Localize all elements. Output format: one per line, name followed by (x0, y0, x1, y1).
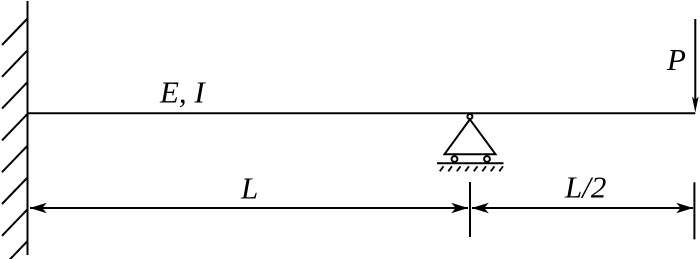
roller left (452, 156, 458, 162)
beam (28, 112, 696, 114)
dimension line L/2 shaft (472, 207, 693, 209)
roller right (484, 156, 490, 162)
ground hatching (440, 166, 503, 171)
svg-text:E, I: E, I (159, 75, 206, 110)
support triangle (445, 119, 496, 154)
middle tick (469, 182, 471, 237)
right end tick (693, 182, 695, 239)
wall (fixed support) vertical line (27, 1, 29, 255)
dimension line L shaft (30, 207, 468, 209)
roller-pin support: pin circle (467, 114, 472, 119)
svg-text:P: P (666, 42, 686, 77)
force P arrowhead (692, 97, 699, 113)
dim L/2 right arrowhead (676, 203, 693, 214)
dim L/2 left arrowhead (472, 203, 489, 214)
svg-text:L: L (240, 170, 258, 205)
ground line under support (437, 162, 504, 164)
wall hatching (2, 19, 28, 259)
dim L left arrowhead (30, 203, 47, 214)
svg-text:L/2: L/2 (564, 170, 606, 205)
dim L right arrowhead (451, 203, 468, 214)
force P arrow shaft (694, 19, 696, 100)
